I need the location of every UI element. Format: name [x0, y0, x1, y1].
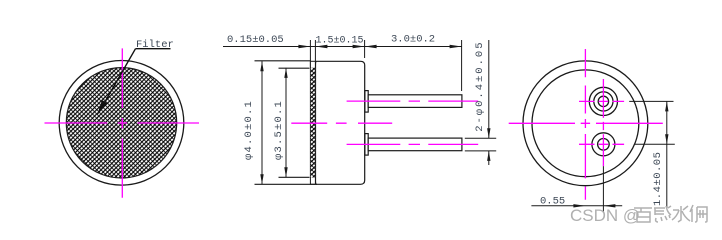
arrow left at can right (3.0) — [365, 45, 377, 48]
main crosshair horizontal — [509, 122, 663, 124]
phi4.0 arrows — [260, 61, 263, 71]
top pin horizontal centerline — [579, 100, 624, 102]
filter mesh circle — [66, 68, 176, 178]
bottom pin outer circle — [592, 133, 615, 156]
svg-text:0.55: 0.55 — [540, 196, 565, 208]
extension line strip right — [314, 40, 316, 67]
phi3.5 ext top — [279, 67, 310, 69]
outer circle (mic body front) — [59, 61, 184, 186]
main crosshair vertical — [584, 49, 586, 200]
phi0.4 arrow up — [487, 151, 490, 161]
top pin flange — [365, 91, 368, 113]
1.4 arrow up — [665, 101, 668, 111]
svg-text:φ4.0±0.1: φ4.0±0.1 — [243, 100, 255, 160]
top pin inner circle — [598, 96, 608, 106]
bottom pin inner circle — [598, 139, 610, 151]
filter strip outline — [310, 61, 315, 184]
centerline vertical (left view) — [121, 48, 123, 197]
arrow right at strip left (0.15 outside) — [298, 45, 310, 48]
arrow right at pin end (3.0) — [450, 45, 462, 48]
inner circle (back rim) — [532, 70, 639, 177]
extension line strip left — [309, 40, 311, 67]
top pin middle circle — [594, 92, 613, 111]
watermark CJK glyph 3 — [672, 206, 690, 222]
bottom pin horizontal centerline — [579, 143, 624, 145]
watermark CJK glyph 1 — [634, 208, 652, 222]
svg-text:3.0±0.2: 3.0±0.2 — [391, 34, 435, 46]
bottom pin flange — [365, 134, 368, 156]
top pin rod — [368, 95, 462, 108]
pin vertical centerline — [602, 79, 604, 166]
0.55 arrow right — [573, 204, 585, 207]
svg-text:1.4±0.05: 1.4±0.05 — [652, 152, 664, 206]
bottom pin centerline — [347, 143, 479, 145]
top dimension line — [223, 46, 462, 48]
svg-text:1.5±0.15: 1.5±0.15 — [316, 36, 364, 47]
top pin outer circle — [589, 87, 617, 115]
1.4 ext top — [629, 100, 673, 102]
pin ext line down (black) — [602, 166, 604, 212]
phi4.0 ext top — [255, 60, 312, 62]
Filter leader arrowhead — [97, 100, 107, 116]
mic can body (side view) — [316, 61, 365, 184]
arrow left at strip right (0.15/1.5) — [315, 45, 327, 48]
svg-text:2-φ0.4±0.05: 2-φ0.4±0.05 — [474, 40, 486, 131]
extension line pin end — [461, 40, 463, 91]
Filter leader line — [99, 49, 136, 113]
bottom pin rod — [368, 138, 462, 151]
svg-text:CSDN @: CSDN @ — [570, 206, 640, 225]
extension line can right — [364, 40, 366, 58]
phi0.4 dim line upper — [488, 40, 490, 138]
0.55 arrow left — [603, 204, 615, 207]
top pin centerline — [347, 100, 479, 102]
phi3.5 dimension line — [285, 68, 287, 177]
filter strip hatch — [311, 68, 315, 178]
watermark CJK glyph 4 — [690, 205, 707, 222]
phi0.4 dim line lower — [488, 151, 490, 165]
outer circle (back) — [523, 61, 648, 186]
Filter underline — [136, 48, 171, 50]
watermark CJK glyph 2 — [654, 206, 671, 222]
svg-text:φ3.5±0.1: φ3.5±0.1 — [273, 100, 285, 160]
phi0.4 ext bottom — [465, 150, 496, 152]
phi0.4 arrow down — [487, 128, 490, 138]
1.4 arrow down — [665, 134, 668, 144]
phi0.4 ext top — [465, 137, 496, 139]
phi4.0 ext bottom — [255, 183, 318, 185]
phi3.5 arrows — [284, 68, 287, 78]
centerline horizontal (left view) — [45, 122, 200, 124]
0.55 dim line — [531, 205, 622, 207]
1.4 ext bottom — [635, 143, 675, 145]
1.4 dim line — [666, 101, 668, 208]
phi3.5 ext bottom — [279, 176, 310, 178]
phi4.0 dimension line — [261, 61, 263, 184]
body centerline (side view) — [291, 122, 392, 124]
arrow right at can right (1.5) — [353, 45, 365, 48]
svg-text:0.15±0.05: 0.15±0.05 — [227, 34, 284, 46]
